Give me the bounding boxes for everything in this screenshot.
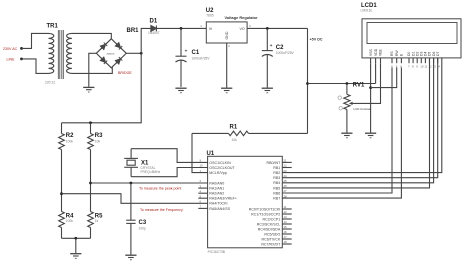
svg-text:14: 14	[284, 220, 288, 224]
ground LCD VSS	[365, 133, 376, 138]
node RV1 top junction	[346, 82, 349, 85]
node frequency tap junction	[60, 192, 63, 195]
LCD1 pin 8 D1	[412, 58, 414, 63]
RV1 pin 1 marker	[338, 96, 341, 99]
svg-text:10k: 10k	[232, 138, 238, 142]
wire secondary bottom to bridge AC2	[72, 68, 112, 74]
svg-text:VO: VO	[240, 27, 245, 31]
node R3 top junction	[89, 121, 92, 124]
wire D1 cathode to U2 input	[156, 27, 206, 29]
transformer TR1 secondary winding	[67, 33, 72, 73]
bridge BR1 diode bottom-left	[99, 56, 108, 65]
node C1 junction	[180, 27, 183, 30]
svg-text:RA4/T0CKI: RA4/T0CKI	[209, 202, 227, 206]
wire LCD VEE to RV1 wiper	[350, 63, 380, 103]
U1 pin 5 RA3/AN3/VREF+	[198, 197, 207, 199]
wire bridge output down to divider rail	[62, 53, 142, 123]
svg-text:To measure the Frequency: To measure the Frequency	[140, 208, 183, 212]
wire LCD VDD down to +5V rail	[375, 63, 377, 83]
svg-text:230V AC: 230V AC	[3, 47, 18, 51]
svg-text:10k: 10k	[95, 140, 101, 144]
node divider ground junction	[74, 237, 77, 240]
node 230V AC terminal	[20, 47, 23, 50]
bridge BR1 diode top-left	[99, 42, 108, 51]
svg-text:RB3: RB3	[273, 176, 280, 180]
svg-text:RA3/AN3/VREF+: RA3/AN3/VREF+	[209, 197, 237, 201]
svg-text:+: +	[185, 49, 188, 54]
LCD1 pin 10 D3	[420, 58, 422, 63]
wire RB6 to LCD RS	[282, 68, 392, 194]
svg-text:RC5/SDO: RC5/SDO	[264, 232, 280, 236]
voltage regulator U2 7805	[206, 22, 247, 43]
svg-text:RV1: RV1	[353, 82, 365, 88]
op-amp... microcontroller U1 PIC16C73B	[208, 156, 283, 248]
wire RB5 to LCD D4	[282, 58, 429, 188]
svg-text:RB4: RB4	[273, 181, 280, 185]
U1 pin 3 RA1/AN1	[198, 187, 207, 189]
resistor R4 100k	[59, 212, 65, 228]
RV1 pin 2 marker	[339, 107, 342, 110]
svg-text:15: 15	[284, 225, 288, 229]
wire LINE to primary bottom	[22, 59, 49, 74]
node LINE terminal	[20, 58, 23, 61]
wire frequency tap to RA4	[62, 194, 208, 204]
svg-text:RB5: RB5	[273, 186, 280, 190]
wire divider bottom join	[62, 237, 91, 239]
svg-text:+: +	[270, 43, 273, 48]
svg-text:RC1/T1OSI/CCP2: RC1/T1OSI/CCP2	[251, 212, 280, 216]
wire RB4 to LCD D5	[282, 58, 433, 183]
svg-text:VI: VI	[209, 27, 212, 31]
RV1 wiper arrow	[349, 102, 353, 105]
node peak tap junction	[89, 182, 92, 185]
svg-text:R3: R3	[95, 133, 103, 139]
svg-text:100p: 100p	[139, 227, 147, 231]
svg-text:U1: U1	[207, 151, 215, 157]
U1 pin 14 RC3/SCK/SCL	[282, 223, 291, 225]
U1 pin 17 RC6/TX/CK	[282, 238, 291, 240]
bridge rectifier BR1	[96, 39, 126, 68]
svg-text:RC0/T1OSO/T1CKI: RC0/T1OSO/T1CKI	[249, 207, 281, 211]
svg-text:RC3/SCK/SCL: RC3/SCK/SCL	[257, 222, 281, 226]
U1 pin 7 RA5/AN4/SS	[198, 207, 207, 209]
LCD1 pin 11 D4	[424, 58, 426, 63]
svg-text:11: 11	[284, 205, 287, 209]
svg-text:OSC1/CLKIN: OSC1/CLKIN	[209, 161, 231, 165]
wire LCD RW to VSS	[371, 68, 397, 88]
bridge BR1 diode bottom-right	[114, 56, 123, 65]
svg-text:12: 12	[429, 64, 433, 68]
svg-text:10: 10	[420, 64, 424, 68]
svg-text:100k: 100k	[66, 140, 74, 144]
U1 pin 15 RC4/SDI/SDA	[282, 228, 291, 230]
svg-text:RB2: RB2	[273, 171, 280, 175]
svg-text:RC4/SDI/SDA: RC4/SDI/SDA	[258, 227, 281, 231]
wire RB0 stub	[282, 161, 291, 163]
diode D1 1N4007	[151, 26, 157, 32]
svg-text:OSC2/CLKOUT: OSC2/CLKOUT	[209, 166, 235, 170]
svg-text:RB1: RB1	[273, 166, 280, 170]
ground C2	[262, 88, 273, 93]
svg-text:RA5/AN4/SS: RA5/AN4/SS	[209, 207, 230, 211]
capacitor C3 100p	[130, 183, 132, 220]
bridge BR1 diode top-right	[114, 42, 123, 51]
wire RB7 to LCD E	[282, 68, 401, 199]
wire R3 to R5 rail	[90, 150, 92, 212]
wire bridge DC+ to node	[126, 52, 141, 54]
svg-text:R1: R1	[230, 125, 238, 131]
svg-text:1000uF/25V: 1000uF/25V	[192, 57, 211, 61]
LCD1 pin 3 VEE	[380, 58, 382, 63]
svg-text:C2: C2	[276, 45, 284, 51]
capacitor C1 1000uF/25V	[180, 28, 182, 56]
svg-text:BR1: BR1	[127, 28, 140, 34]
svg-text:MCLR/Vpp: MCLR/Vpp	[209, 171, 227, 175]
wire crystal bottom to OSC2	[131, 168, 208, 177]
resistor R2 100k	[61, 123, 63, 134]
svg-text:18: 18	[284, 240, 288, 244]
svg-text:+5V DC: +5V DC	[310, 37, 323, 41]
svg-text:VDD: VDD	[374, 48, 378, 56]
svg-text:RA1/AN1: RA1/AN1	[209, 187, 224, 191]
wire bridge output up to D1	[141, 28, 151, 53]
svg-text:100k: 100k	[66, 219, 74, 223]
ground C3	[125, 255, 136, 260]
node bridge output junction	[140, 52, 143, 55]
wire bridge DC- to ground	[89, 53, 97, 87]
svg-text:10: 10	[200, 164, 204, 168]
svg-text:14: 14	[437, 64, 441, 68]
node C2 junction	[266, 27, 269, 30]
wire R1 to MCLR	[192, 133, 208, 172]
svg-text:RB0/INT: RB0/INT	[267, 161, 282, 165]
node VSS RW junction	[369, 86, 372, 89]
wire LCD VSS to ground	[370, 63, 372, 133]
svg-text:13: 13	[433, 64, 437, 68]
svg-text:13: 13	[284, 215, 288, 219]
wire U2 output to +5V node	[247, 27, 307, 29]
resistor R5 1k	[88, 212, 94, 228]
LCD1 LM016L display	[362, 19, 461, 58]
svg-text:RC2/CCP1: RC2/CCP1	[263, 217, 281, 221]
svg-text:RW: RW	[395, 50, 399, 56]
svg-text:7805: 7805	[206, 14, 214, 18]
capacitor C2 1000uF/25V	[266, 28, 268, 50]
svg-text:1000uF/25V: 1000uF/25V	[276, 51, 295, 55]
svg-text:R2: R2	[66, 133, 74, 139]
svg-text:C1: C1	[192, 50, 200, 56]
wire crystal top to OSC1	[131, 149, 208, 163]
LCD1 pin 1 VSS	[370, 58, 372, 63]
svg-text:RB7: RB7	[273, 197, 280, 201]
svg-text:FREQ=8MHz: FREQ=8MHz	[141, 170, 161, 174]
LCD1 pin 13 D6	[433, 58, 435, 63]
wire 230V AC to primary top	[22, 33, 49, 48]
resistor R3 10k	[90, 123, 92, 134]
crystal X1 8MHz	[124, 149, 138, 177]
wire R2 to R4 rail	[61, 150, 63, 212]
svg-text:VEE: VEE	[379, 48, 383, 56]
LCD1 pin 4 RS	[391, 58, 393, 63]
svg-text:LINE: LINE	[7, 57, 16, 61]
svg-text:PIC16C73B: PIC16C73B	[208, 250, 226, 254]
svg-text:220:12: 220:12	[45, 81, 55, 85]
svg-text:RS: RS	[390, 51, 394, 56]
LCD1 pin 14 D7	[437, 58, 439, 63]
svg-text:TR1: TR1	[47, 24, 59, 30]
svg-text:C3: C3	[139, 220, 147, 226]
svg-text:RB6: RB6	[273, 191, 280, 195]
U1 pin 4 RA2/AN2	[198, 192, 207, 194]
ground C1	[175, 88, 186, 93]
svg-text:To measure the peak point: To measure the peak point	[139, 186, 181, 190]
ground U2	[221, 88, 232, 93]
node +5V junction	[306, 82, 309, 85]
svg-text:1k: 1k	[95, 219, 99, 223]
svg-text:LM016L: LM016L	[361, 9, 373, 13]
svg-text:11: 11	[424, 64, 427, 68]
ground bridge negative	[83, 87, 94, 92]
U1 pin 16 RC5/SDO	[282, 233, 291, 235]
U1 pin 13 RC2/CCP1	[282, 218, 291, 220]
svg-text:Voltage Regulator: Voltage Regulator	[225, 15, 258, 20]
wire +5V vertical rail	[307, 28, 309, 133]
wire RB1 stub	[282, 167, 291, 169]
LCD1 pin 9 D2	[416, 58, 418, 63]
svg-text:2W005G: 2W005G	[107, 54, 115, 56]
wire RB2 to LCD D7	[282, 58, 442, 173]
svg-text:VSS: VSS	[369, 48, 373, 56]
LCD1 pin 2 VDD	[375, 58, 377, 63]
LCD1 pin 12 D5	[429, 58, 431, 63]
LCD1 pin 6 E	[400, 58, 402, 63]
ground RV1	[341, 133, 352, 138]
svg-text:RA2/AN2: RA2/AN2	[209, 192, 224, 196]
svg-text:16: 16	[284, 230, 288, 234]
svg-text:12: 12	[284, 210, 288, 214]
svg-text:BRIDGE: BRIDGE	[118, 71, 132, 75]
transformer TR1 primary winding	[49, 33, 54, 73]
wire RB3 to LCD D6	[282, 58, 437, 178]
U1 pin 12 RC1/T1OSI/CCP2	[282, 213, 291, 215]
wire to bottom ground	[75, 238, 77, 253]
resistor R1 10k (MCLR pullup)	[192, 132, 229, 134]
svg-text:1N4007: 1N4007	[148, 31, 160, 35]
wire peak point to RA0	[91, 182, 208, 184]
wire secondary top to bridge AC1	[72, 33, 111, 38]
svg-text:D7: D7	[436, 52, 440, 56]
svg-text:LCD Contrast: LCD Contrast	[354, 107, 372, 111]
U1 pin 11 RC0/T1OSO/T1CKI	[282, 208, 291, 210]
transformer TR1 core	[58, 30, 63, 79]
ground divider	[70, 254, 81, 259]
svg-text:RC6/TX/CK: RC6/TX/CK	[262, 237, 281, 241]
LCD1 pin 7 D0	[408, 58, 410, 63]
svg-text:D1: D1	[150, 19, 158, 25]
wire +5V to LCD VDD rail	[308, 83, 376, 85]
U1 pin 18 RC7/RX/DT	[282, 243, 291, 245]
svg-text:RA0/AN0: RA0/AN0	[209, 181, 224, 185]
node C3 junction	[130, 182, 133, 185]
svg-text:RC7/RX/DT: RC7/RX/DT	[261, 242, 281, 246]
wire U2 GND to ground	[226, 43, 228, 88]
svg-text:GND: GND	[225, 31, 229, 39]
LCD1 pin 5 RW	[396, 58, 398, 63]
svg-text:17: 17	[284, 235, 288, 239]
